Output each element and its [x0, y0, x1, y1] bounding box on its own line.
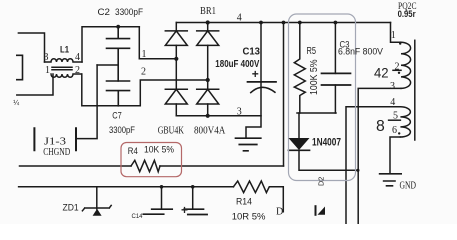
svg-text:10K 5%: 10K 5% — [144, 144, 174, 154]
svg-text:4: 4 — [390, 97, 395, 108]
svg-text:GBU4K: GBU4K — [158, 125, 185, 136]
svg-text:2: 2 — [395, 62, 400, 73]
svg-text:6.8nF 800V: 6.8nF 800V — [338, 46, 383, 56]
svg-text:L1: L1 — [60, 44, 70, 55]
svg-text:D: D — [276, 206, 283, 217]
svg-text:2: 2 — [141, 67, 146, 78]
svg-text:1: 1 — [45, 65, 50, 76]
svg-text:D2: D2 — [317, 177, 326, 186]
svg-text:C2: C2 — [98, 7, 111, 18]
svg-text:+: + — [181, 203, 188, 217]
svg-text:¼: ¼ — [13, 100, 19, 107]
svg-text:3: 3 — [44, 52, 49, 63]
svg-text:3: 3 — [390, 81, 395, 92]
svg-text:4: 4 — [237, 13, 242, 24]
svg-text:ZD1: ZD1 — [63, 203, 79, 214]
svg-text:BR1: BR1 — [200, 6, 216, 17]
svg-text:3300pF: 3300pF — [115, 7, 143, 18]
svg-text:PQ2C: PQ2C — [398, 2, 417, 12]
svg-text:1N4007: 1N4007 — [312, 136, 341, 148]
svg-text:R5: R5 — [307, 46, 317, 57]
svg-text:R14: R14 — [236, 197, 252, 208]
svg-text:2: 2 — [75, 65, 80, 76]
svg-text:C13: C13 — [243, 47, 261, 58]
svg-text:8: 8 — [376, 118, 385, 135]
svg-text:100K 5%: 100K 5% — [309, 59, 320, 95]
svg-text:C14: C14 — [132, 214, 144, 220]
svg-text:CHGND: CHGND — [43, 146, 70, 158]
svg-text:+: + — [252, 67, 259, 81]
svg-text:R4: R4 — [128, 146, 138, 156]
svg-text:1: 1 — [142, 49, 147, 60]
svg-text:3300pF: 3300pF — [109, 125, 135, 136]
svg-text:1: 1 — [391, 30, 396, 41]
svg-text:4: 4 — [75, 52, 80, 63]
svg-text:10R 5%: 10R 5% — [232, 211, 266, 222]
svg-text:6: 6 — [392, 125, 397, 136]
svg-text:800V4A: 800V4A — [194, 125, 226, 136]
svg-text:42: 42 — [374, 64, 389, 80]
svg-text:C7: C7 — [112, 111, 122, 122]
svg-text:GND: GND — [400, 180, 417, 191]
svg-text:3: 3 — [237, 106, 242, 117]
svg-text:5: 5 — [393, 110, 398, 121]
